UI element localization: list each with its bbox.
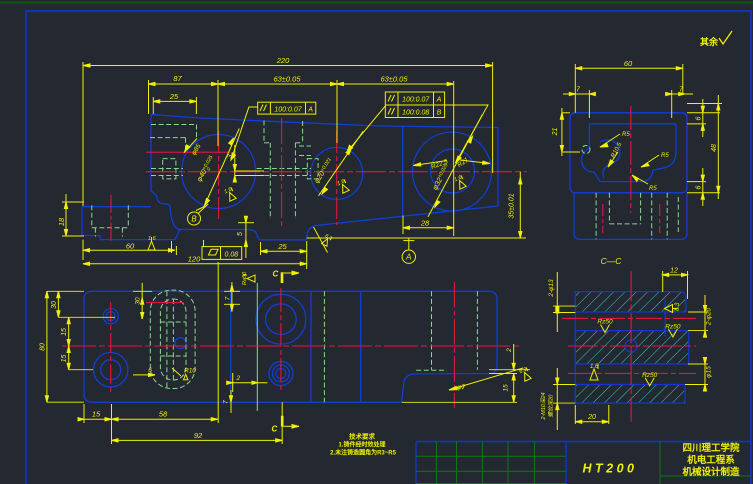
svg-text:7: 7 (576, 87, 581, 94)
svg-text:25: 25 (277, 242, 287, 251)
svg-text:2: 2 (506, 348, 513, 353)
svg-text:48: 48 (711, 144, 718, 152)
svg-text:1.6: 1.6 (336, 178, 346, 187)
svg-text:21: 21 (552, 128, 559, 137)
svg-text:A: A (405, 253, 411, 262)
svg-text:63±0.05: 63±0.05 (273, 75, 301, 84)
svg-text:B: B (437, 110, 442, 117)
svg-text:87: 87 (173, 74, 182, 83)
svg-text:机械设计制造: 机械设计制造 (682, 466, 740, 478)
svg-text:6.3: 6.3 (675, 302, 681, 311)
svg-text:30: 30 (135, 297, 142, 305)
svg-text:2: 2 (236, 375, 241, 382)
svg-text:Rz50: Rz50 (665, 323, 681, 330)
svg-text:C: C (273, 270, 279, 279)
svg-text:螺纹深20: 螺纹深20 (548, 394, 555, 418)
svg-text:7: 7 (225, 296, 232, 300)
svg-text:28: 28 (420, 218, 430, 227)
svg-text:60: 60 (624, 59, 633, 68)
svg-text:1.铸件经时效处理: 1.铸件经时效处理 (338, 441, 385, 449)
svg-text:92: 92 (194, 431, 203, 440)
svg-text:φ40+0.0250: φ40+0.0250 (194, 154, 218, 184)
svg-text:技术要求: 技术要求 (349, 432, 376, 441)
svg-text:φ7: φ7 (457, 384, 466, 391)
svg-text:Rz50: Rz50 (597, 319, 613, 326)
svg-text:15: 15 (61, 328, 68, 336)
svg-text:其余: 其余 (700, 36, 719, 47)
svg-text:20: 20 (587, 414, 596, 421)
svg-text:6: 6 (148, 367, 152, 374)
svg-text:R5: R5 (661, 153, 669, 159)
svg-text:C: C (272, 425, 278, 434)
svg-text:Ra50: Ra50 (242, 271, 248, 285)
svg-text:R5: R5 (649, 186, 657, 192)
svg-text:15: 15 (503, 384, 510, 392)
svg-text:7: 7 (223, 400, 230, 404)
svg-text:φ15: φ15 (706, 366, 713, 378)
svg-text:1.6: 1.6 (590, 364, 599, 370)
svg-text:6: 6 (696, 185, 703, 189)
svg-text:2-M10深24: 2-M10深24 (540, 392, 547, 420)
svg-text:63±0.05: 63±0.05 (380, 75, 408, 84)
svg-text:C—C: C—C (601, 256, 623, 266)
svg-text:60: 60 (126, 241, 135, 250)
svg-text:100:0.07: 100:0.07 (402, 97, 430, 104)
svg-text:R5: R5 (622, 132, 630, 138)
svg-text:15: 15 (61, 355, 68, 363)
svg-text:R10.5: R10.5 (610, 141, 623, 159)
svg-text:HT200: HT200 (582, 462, 637, 476)
svg-text:Rz50: Rz50 (642, 372, 658, 379)
svg-text:1.6: 1.6 (453, 174, 463, 183)
svg-text:58: 58 (159, 410, 168, 419)
svg-text:6: 6 (696, 116, 703, 120)
svg-text:12: 12 (670, 267, 678, 274)
svg-text:A: A (307, 107, 313, 114)
svg-text:30: 30 (51, 301, 58, 309)
svg-text:80: 80 (40, 343, 47, 351)
svg-text:5: 5 (237, 232, 244, 236)
svg-text:1.6: 1.6 (223, 186, 233, 195)
svg-text:2-φ20: 2-φ20 (706, 307, 713, 326)
svg-text:35±0.01: 35±0.01 (509, 193, 516, 218)
svg-text:220: 220 (276, 56, 290, 65)
svg-text:100:0.08: 100:0.08 (402, 110, 429, 117)
svg-text:120: 120 (188, 254, 201, 263)
svg-text:φ20+0.021: φ20+0.021 (312, 156, 335, 185)
svg-text:100:0.07: 100:0.07 (274, 107, 302, 114)
svg-text:6.3: 6.3 (518, 366, 528, 375)
svg-text:1.6: 1.6 (148, 236, 157, 242)
svg-text:2-φ13: 2-φ13 (548, 279, 555, 298)
svg-text:A: A (436, 97, 442, 104)
svg-text:B: B (191, 215, 197, 224)
svg-text:四川理工学院: 四川理工学院 (682, 442, 740, 454)
svg-text:机电工程系: 机电工程系 (687, 454, 735, 466)
svg-text:25: 25 (169, 92, 179, 101)
svg-text:2.未注铸造圆角为R3~R5: 2.未注铸造圆角为R3~R5 (330, 449, 397, 457)
svg-text:18: 18 (57, 217, 66, 226)
svg-text:0.08: 0.08 (224, 252, 238, 259)
svg-text:15: 15 (92, 410, 101, 419)
